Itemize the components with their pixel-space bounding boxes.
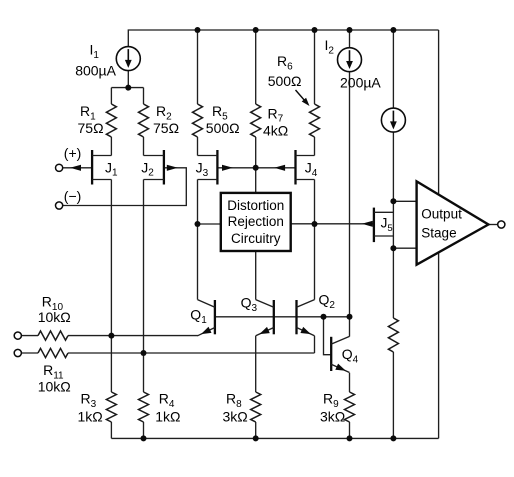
resistor R11 10kohm <box>38 348 68 357</box>
resistor R6 500ohm <box>310 104 320 137</box>
svg-text:75Ω: 75Ω <box>153 120 179 136</box>
node: bottom rail / R4 <box>141 435 147 441</box>
svg-text:(−): (−) <box>64 188 82 204</box>
wire: input (-) lead to J2 gate <box>63 168 187 206</box>
resistor R10 10kohm <box>38 331 68 340</box>
svg-text:Rejection: Rejection <box>228 214 284 229</box>
current source (unlabeled, output bias) <box>381 108 405 132</box>
svg-text:3kΩ: 3kΩ <box>223 408 248 424</box>
svg-text:4kΩ: 4kΩ <box>263 123 288 139</box>
transistor J4 (JFET) <box>294 150 296 185</box>
distortion rejection circuitry box U1 <box>221 193 291 251</box>
resistor R4 1kohm <box>139 392 149 422</box>
wire: R11 input line to Q2 emitter <box>21 352 38 354</box>
svg-text:500Ω: 500Ω <box>268 73 302 89</box>
transistor Q2 (BJT) <box>295 300 297 334</box>
node: box left / J3 source <box>195 221 201 227</box>
svg-text:1kΩ: 1kΩ <box>155 408 180 424</box>
resistor R2 75ohm <box>139 104 149 137</box>
resistor R7 4kohm <box>251 104 261 137</box>
wire: box right to J5 gate <box>291 223 374 225</box>
resistor R3 1kohm <box>106 392 116 422</box>
current source I1 800uA <box>116 47 140 71</box>
node: rail/CS <box>390 27 396 33</box>
resistor unlabeled (output bias) <box>388 318 398 352</box>
node: R10 line / J1 source <box>108 333 114 339</box>
node: R11 line / J2 source <box>141 350 147 356</box>
wire: I1 output to R1/R2 tee <box>127 71 129 88</box>
node: bottom rail / bias R <box>390 435 396 441</box>
svg-text:800µA: 800µA <box>75 63 116 79</box>
svg-text:75Ω: 75Ω <box>78 120 104 136</box>
wire: shared base line Q1 Q3 Q2 to I2 node <box>215 316 350 318</box>
node: box right / J4 source <box>312 221 318 227</box>
wire: right-side vertical rail down to bottom rail <box>438 30 440 438</box>
node: (+) input terminal <box>56 164 63 171</box>
node: rail/I2 <box>347 27 353 33</box>
wire: column C rail to R5 to J3, J3 source down to Q1 collector <box>197 30 199 104</box>
transistor J2 (JFET) <box>163 150 165 185</box>
wire: column G rail - current source - J5 - resistor - bottom rail <box>392 30 394 108</box>
node: rail/R5 <box>195 27 201 33</box>
transistor J1 (JFET) <box>91 150 93 185</box>
svg-text:Distortion: Distortion <box>227 198 284 213</box>
transistor J3 (JFET) <box>216 150 218 185</box>
svg-text:500Ω: 500Ω <box>206 120 240 136</box>
node: J5 drain / output stage <box>390 198 396 204</box>
node: rail/R6 <box>312 27 318 33</box>
transistor J5 (JFET) <box>373 208 375 243</box>
wire: Q4 base riser from base line <box>324 317 332 355</box>
resistor R1 75ohm <box>106 104 116 137</box>
svg-text:Circuitry: Circuitry <box>231 231 281 246</box>
wire: bottom negative rail <box>111 437 438 439</box>
svg-text:Stage: Stage <box>421 225 456 240</box>
resistor R8 3kohm <box>251 392 261 422</box>
R6 label pointer arrow <box>296 90 306 102</box>
wire: positive supply top rail <box>128 30 438 47</box>
node: base line / I2 / Q4 collector <box>347 314 353 320</box>
svg-text:1kΩ: 1kΩ <box>78 408 103 424</box>
resistor R5 500ohm <box>193 104 203 137</box>
svg-text:10kΩ: 10kΩ <box>38 309 71 325</box>
op-amp output stage <box>417 181 489 264</box>
wire: J5 drain/source taps to output stage <box>393 200 416 202</box>
node: bottom rail / R9 <box>347 435 353 441</box>
wire: input (+) lead to J1 gate <box>63 167 92 169</box>
node: (-) input terminal <box>56 202 63 209</box>
wire: box left to J3 source column <box>198 223 221 225</box>
wire: J4 gate to center node <box>256 167 296 169</box>
node: I1/R1/R2 junction <box>125 85 131 91</box>
wire: output stage to output terminal <box>488 224 497 226</box>
node: R10 input terminal <box>14 332 21 339</box>
wire: column A (R1-J1 drain), J1 source down through R3 <box>110 88 112 104</box>
node: rail/R7 <box>253 27 259 33</box>
node: J5 source / output stage <box>390 245 396 251</box>
svg-text:10kΩ: 10kΩ <box>38 378 71 394</box>
svg-text:Output: Output <box>421 206 462 221</box>
node: output terminal <box>498 221 505 228</box>
node: gates J3 J4 R7 <box>253 165 259 171</box>
transistor Q3 (BJT) <box>273 300 275 334</box>
transistor Q4 (BJT) <box>330 337 332 371</box>
node: bottom rail / R8 <box>253 435 259 441</box>
node: R11 input terminal <box>14 349 21 356</box>
wire: J3 gate to center node <box>217 167 255 169</box>
node: base line / Q4 base <box>321 314 327 320</box>
wire: Q2 emitter riser to R11 line <box>314 336 316 353</box>
svg-text:200µA: 200µA <box>340 74 381 90</box>
wire: column F I2 down to base node, Q4 emitter through R9 <box>349 30 351 48</box>
current source I2 200uA <box>338 48 362 72</box>
wire: column D rail-R7-gates-box, box bottom to Q3, Q3 emitter through R8 <box>255 30 257 104</box>
svg-text:3kΩ: 3kΩ <box>320 408 345 424</box>
svg-text:(+): (+) <box>64 145 82 161</box>
transistor Q1 (BJT) <box>214 300 216 334</box>
wire: column E rail-R6-J4, J4 source down to Q2 collector <box>314 30 316 104</box>
resistor R9 3kohm <box>345 392 355 422</box>
wire: column B (R2-J2 drain), J2 source down through R4 <box>143 88 145 104</box>
wire: R10 input line to Q1 emitter <box>21 335 38 337</box>
